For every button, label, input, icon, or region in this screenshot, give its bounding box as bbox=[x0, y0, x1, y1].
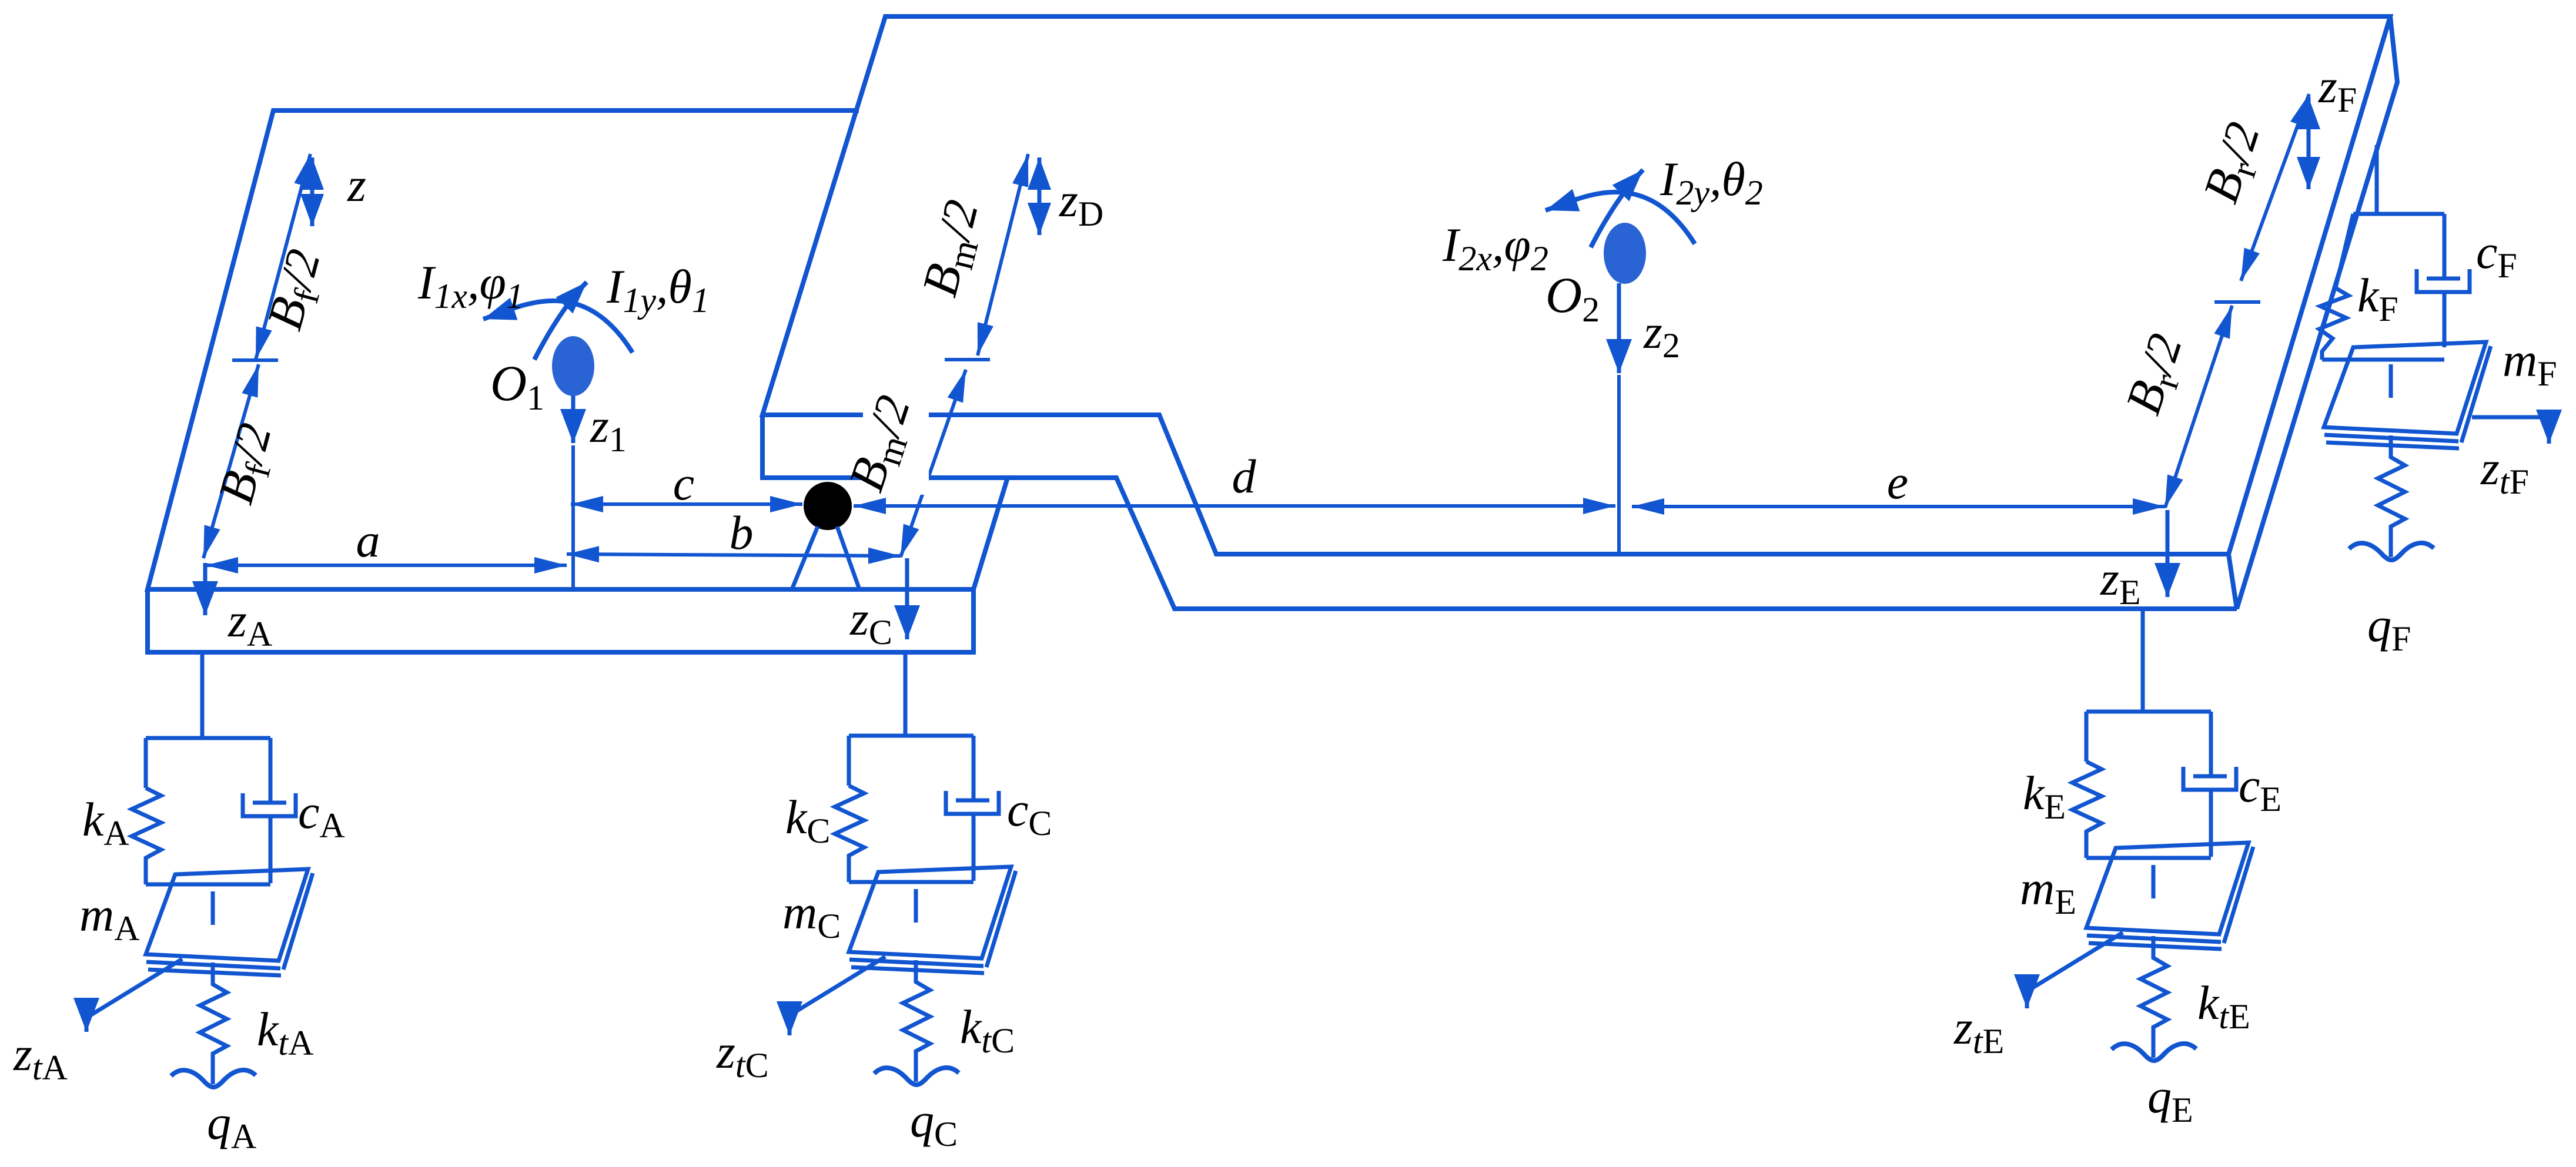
svg-text:z: z bbox=[347, 158, 366, 212]
svg-text:c: c bbox=[673, 457, 694, 510]
svg-text:b: b bbox=[730, 506, 754, 559]
svg-text:a: a bbox=[356, 514, 380, 567]
svg-text:e: e bbox=[1887, 455, 1908, 509]
svg-text:d: d bbox=[1232, 450, 1257, 503]
